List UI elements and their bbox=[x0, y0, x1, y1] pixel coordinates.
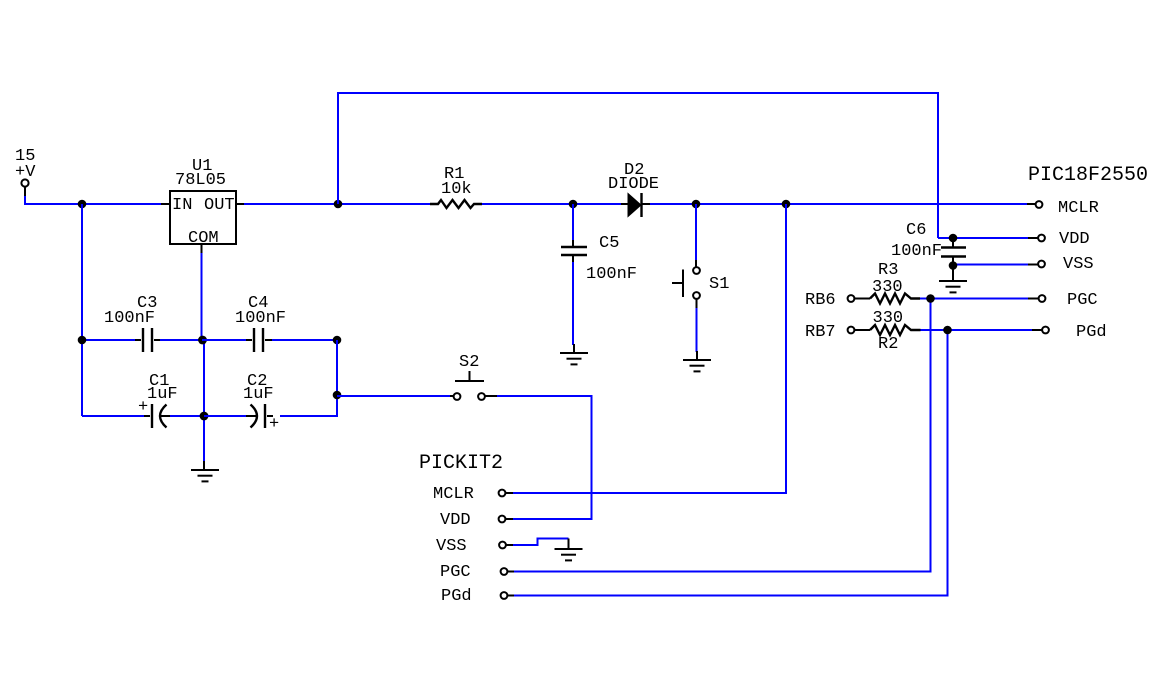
svg-text:IN: IN bbox=[172, 196, 192, 215]
svg-text:C5: C5 bbox=[599, 234, 619, 253]
wire top feedback loop bbox=[338, 93, 938, 238]
pin VSS of PIC18F2550 bbox=[1028, 255, 1094, 274]
svg-text:100nF: 100nF bbox=[235, 309, 286, 328]
wire PICKIT2 PGd up to R2 node bbox=[514, 330, 948, 596]
svg-text:C6: C6 bbox=[906, 221, 926, 240]
pin MCLR of PIC18F2550 bbox=[1027, 199, 1099, 218]
wire right rail down C4 to C2 row bbox=[280, 340, 337, 416]
wire left rail down from J1 to bottom capacitor row bbox=[81, 204, 83, 416]
svg-text:100nF: 100nF bbox=[104, 309, 155, 328]
svg-text:R2: R2 bbox=[878, 335, 898, 354]
resistor R1 10k bbox=[430, 165, 482, 208]
svg-text:PICKIT2: PICKIT2 bbox=[419, 452, 503, 475]
ground below center node bbox=[191, 461, 219, 481]
wire VSS row bbox=[953, 264, 1028, 266]
ground below S1 bbox=[683, 351, 711, 371]
node junction J10 S2 branch bbox=[333, 391, 342, 400]
node junction J14 bbox=[926, 294, 935, 303]
wire S1 to ground bbox=[696, 308, 698, 352]
capacitor C2 1uF bbox=[204, 372, 279, 434]
svg-text:100nF: 100nF bbox=[891, 242, 942, 261]
resistor R3 330 bbox=[870, 261, 920, 304]
svg-text:PIC18F2550: PIC18F2550 bbox=[1028, 164, 1148, 187]
svg-text:S2: S2 bbox=[459, 353, 479, 372]
capacitor C4 100nF bbox=[202, 294, 337, 352]
wire R3 to PGC pin bbox=[920, 298, 1028, 300]
PICKIT2 MCLR pin bbox=[433, 485, 513, 504]
wire S2 to PICKIT2 VDD bbox=[497, 396, 592, 519]
svg-text:330: 330 bbox=[873, 309, 904, 328]
pin PGC of PIC18F2550 bbox=[1028, 291, 1098, 310]
svg-text:10k: 10k bbox=[441, 180, 472, 199]
ground at PICKIT2 VSS bbox=[555, 539, 583, 561]
node RB6 terminal bbox=[805, 291, 870, 310]
capacitor C5 100nF bbox=[561, 234, 637, 284]
op-amp U1 78L05 regulator box bbox=[161, 157, 244, 254]
svg-text:COM: COM bbox=[188, 229, 219, 248]
PICKIT2 PGd pin bbox=[441, 587, 514, 606]
svg-text:100nF: 100nF bbox=[586, 265, 637, 284]
node junction J5 PICKIT2 MCLR tap bbox=[782, 200, 791, 209]
PICKIT2 VSS pin bbox=[436, 537, 513, 556]
svg-text:PGC: PGC bbox=[1067, 291, 1098, 310]
wire U1 OUT to R1 bbox=[244, 203, 430, 205]
svg-text:S1: S1 bbox=[709, 275, 729, 294]
pin VDD of PIC18F2550 bbox=[1028, 230, 1090, 249]
node junction J3 C5 tap bbox=[569, 200, 578, 209]
svg-text:1uF: 1uF bbox=[243, 385, 274, 404]
wire PICKIT2 PGC up to R3 node bbox=[514, 299, 931, 572]
PICKIT2 PGC pin bbox=[440, 563, 514, 582]
wire C5 tap down bbox=[572, 204, 574, 241]
PICKIT2 VDD pin bbox=[440, 511, 513, 530]
node junction J1 on input rail bbox=[78, 200, 87, 209]
diode D2 bbox=[608, 161, 659, 217]
node junction J6 bbox=[78, 336, 87, 345]
wire center vertical (U1 COM to ground) bbox=[201, 253, 203, 340]
svg-text:DIODE: DIODE bbox=[608, 175, 659, 194]
svg-text:1uF: 1uF bbox=[147, 385, 178, 404]
svg-text:VDD: VDD bbox=[440, 511, 471, 530]
switch S1 bbox=[672, 260, 729, 309]
svg-text:PGC: PGC bbox=[440, 563, 471, 582]
svg-text:RB6: RB6 bbox=[805, 291, 836, 310]
node junction J2 at x=338 bbox=[334, 200, 343, 209]
wire PICKIT2 MCLR to main MCLR rail bbox=[513, 204, 786, 493]
svg-text:VDD: VDD bbox=[1059, 230, 1090, 249]
node junction J7 bbox=[198, 336, 207, 345]
wire VDD row bbox=[938, 237, 1028, 239]
node junction J9 bbox=[200, 412, 209, 421]
node junction J4 S1 tap bbox=[692, 200, 701, 209]
capacitor C3 100nF bbox=[104, 294, 160, 352]
svg-text:OUT: OUT bbox=[204, 196, 235, 215]
pin PGd of PIC18F2550 bbox=[1032, 323, 1107, 342]
svg-text:VSS: VSS bbox=[436, 537, 467, 556]
wire S1 tap down bbox=[695, 204, 697, 260]
svg-text:78L05: 78L05 bbox=[175, 171, 226, 190]
switch S2 bbox=[450, 353, 497, 400]
svg-text:+: + bbox=[269, 415, 279, 434]
svg-text:MCLR: MCLR bbox=[1058, 199, 1099, 218]
wire R1 to diode D2 bbox=[482, 203, 621, 205]
svg-text:RB7: RB7 bbox=[805, 323, 836, 342]
wire D2 to MCLR rail bbox=[650, 203, 1027, 205]
power terminal +V (15V) bbox=[15, 147, 36, 197]
ground below C5 bbox=[560, 344, 588, 364]
node junction J13 C6 bottom bbox=[949, 261, 958, 270]
node RB7 terminal bbox=[805, 323, 870, 342]
capacitor C1 1uF bbox=[82, 372, 204, 428]
node junction J12 C6 top bbox=[949, 234, 958, 243]
wire +V to U1 IN bbox=[25, 196, 161, 204]
capacitor C6 100nF bbox=[891, 221, 966, 265]
node junction J15 bbox=[943, 326, 952, 335]
svg-text:PGd: PGd bbox=[441, 587, 472, 606]
ground below C6 bbox=[939, 265, 967, 292]
svg-text:VSS: VSS bbox=[1063, 255, 1094, 274]
wire R2 to PGd pin bbox=[921, 329, 1033, 331]
svg-text:+: + bbox=[138, 398, 148, 417]
node junction J8 bbox=[333, 336, 342, 345]
svg-text:MCLR: MCLR bbox=[433, 485, 474, 504]
wire S2 row from right rail bbox=[337, 395, 450, 397]
wire C3 row from left rail bbox=[82, 339, 135, 341]
resistor R2 330 bbox=[870, 309, 921, 354]
wire PICKIT2 VSS to ground bbox=[513, 539, 569, 546]
svg-text:PGd: PGd bbox=[1076, 323, 1107, 342]
wire C3 to center node bbox=[160, 339, 204, 341]
